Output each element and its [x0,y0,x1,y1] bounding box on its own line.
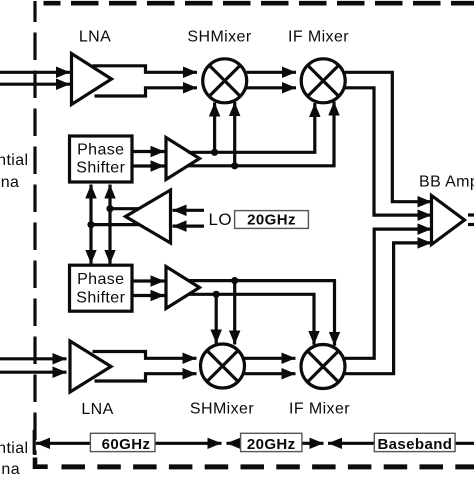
svg-text:SHMixer: SHMixer [190,401,254,418]
svg-text:ntial: ntial [0,440,29,457]
svg-text:BB Amp: BB Amp [419,174,474,191]
svg-text:LNA: LNA [79,29,111,46]
svg-text:IF Mixer: IF Mixer [289,401,350,418]
svg-text:Shifter: Shifter [76,289,125,306]
svg-text:Shifter: Shifter [76,160,125,177]
svg-text:Phase: Phase [77,142,124,159]
svg-text:60GHz: 60GHz [102,436,151,453]
svg-text:ntial: ntial [0,152,29,169]
svg-text:20GHz: 20GHz [247,436,296,453]
svg-text:20GHz: 20GHz [247,212,296,229]
svg-text:LNA: LNA [81,401,113,418]
svg-text:SHMixer: SHMixer [187,29,251,46]
svg-text:Baseband: Baseband [377,436,452,453]
svg-text:na: na [1,174,20,191]
svg-text:Phase: Phase [77,271,124,288]
svg-text:IF Mixer: IF Mixer [288,29,349,46]
svg-text:LO: LO [209,210,232,229]
svg-text:na: na [1,461,20,474]
